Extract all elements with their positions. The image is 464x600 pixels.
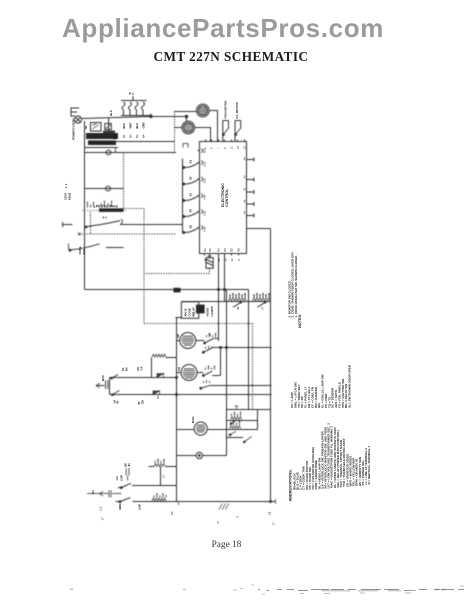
svg-text:S3: S3 — [189, 193, 193, 197]
capacitor C2 — [126, 468, 129, 481]
svg-text:L1: L1 — [99, 507, 103, 511]
svg-text:18: 18 — [208, 333, 212, 336]
wire B3 left lead — [177, 340, 180, 342]
svg-text:K06: K06 — [203, 226, 207, 231]
pulse ticks above R6 — [155, 460, 164, 463]
svg-text:10: 10 — [230, 258, 234, 261]
svg-text:B4: B4 — [223, 248, 227, 252]
wire node drop to B2 — [186, 117, 188, 122]
svg-text:K02: K02 — [203, 161, 207, 166]
switch S3 blade — [183, 196, 198, 201]
svg-text:20A: 20A — [82, 248, 86, 254]
svg-text:LATCH SW UPPER: LATCH SW UPPER — [94, 205, 118, 209]
svg-text:N2: N2 — [129, 134, 133, 138]
svg-text:K05: K05 — [203, 210, 207, 215]
svg-text:16: 16 — [203, 258, 207, 261]
svg-text:S5: S5 — [189, 225, 193, 229]
interlock switch blade A — [85, 219, 122, 228]
linkage dashed fuse to latch — [144, 268, 210, 273]
relay coil box on T1 — [91, 123, 112, 132]
wire transformer out to control — [114, 141, 175, 143]
wire connector bus — [121, 114, 151, 118]
vertical x257.8 sub loop — [257, 410, 259, 430]
linkage dashed vertical x144 — [143, 209, 145, 324]
linkage dashed horizontal y209 — [124, 208, 145, 210]
svg-text:CA: CA — [139, 367, 143, 371]
svg-text:LAMPS: LAMPS — [210, 306, 214, 316]
svg-text:17: 17 — [101, 517, 105, 521]
wire BLK drop — [108, 118, 110, 132]
connector J1 coil pins — [122, 102, 145, 113]
svg-text:NOTES:: NOTES: — [298, 314, 302, 328]
monitor switch blade 1 — [233, 302, 242, 307]
diode D1 — [157, 373, 164, 378]
power cord bracket — [71, 108, 79, 116]
switch S13 blade — [200, 385, 272, 389]
control box top pin ticks — [206, 140, 245, 142]
wire main bus y290 — [85, 289, 249, 291]
svg-text:Page 18: Page 18 — [212, 540, 242, 550]
svg-text:CMT 227N SCHEMATIC: CMT 227N SCHEMATIC — [154, 49, 309, 64]
svg-text:L 1: L 1 — [64, 183, 68, 188]
svg-text:SEC: SEC — [113, 134, 117, 140]
electronic control box U1 — [200, 142, 247, 254]
vertical feed x248.4 — [248, 290, 250, 410]
svg-text:SW: SW — [115, 476, 119, 481]
svg-text:L2: L2 — [268, 511, 272, 515]
svg-text:P 1: P 1 — [129, 92, 134, 96]
wire interlock feed — [63, 222, 73, 227]
wire interlock B — [106, 247, 124, 249]
bridge loop top wire — [110, 377, 177, 379]
switch S17 blade — [118, 483, 131, 488]
wire control to right rail — [247, 228, 271, 230]
svg-text:S-2: S-2 — [103, 216, 108, 220]
svg-text:12: 12 — [223, 258, 227, 261]
transformer T1 secondary block — [88, 140, 116, 145]
pulse ticks above R1 — [230, 294, 245, 298]
resistor group R2 on y301 — [253, 298, 271, 301]
wire left rail mid — [84, 225, 86, 248]
svg-text:B2: B2 — [208, 248, 212, 252]
svg-text:B5: B5 — [230, 248, 234, 252]
linkage dashed horizontal y324 — [144, 323, 253, 325]
chassis hatch marks — [219, 504, 229, 510]
varistor on bridge bottom — [112, 390, 120, 395]
magnetron V1 — [194, 422, 207, 435]
wire fan motor right lead — [209, 111, 217, 142]
vertical feed x226.8 — [226, 290, 228, 456]
svg-text:MAG: MAG — [191, 416, 195, 423]
linkage end mark — [78, 233, 81, 236]
svg-text:BLU: BLU — [135, 123, 139, 129]
svg-text:A3: A3 — [243, 199, 247, 203]
node J dot — [185, 115, 187, 117]
svg-text:D2: D2 — [156, 395, 160, 399]
svg-text:POWER CORD: POWER CORD — [72, 118, 76, 140]
svg-text:CAP: CAP — [138, 504, 142, 510]
switch S12 blade — [203, 371, 221, 376]
latch linkage dotted — [82, 210, 126, 212]
wire transformer bottom — [85, 147, 119, 149]
wire main feed y153 — [85, 152, 176, 154]
linkage dashed horizontal y233 — [79, 233, 176, 235]
switch on bridge top — [111, 374, 118, 379]
wire left rail upper — [84, 121, 86, 225]
wire bus N y501.4 — [133, 501, 276, 503]
svg-text:TR: TR — [84, 126, 88, 130]
wire magnetron bus y429.8 — [177, 429, 258, 431]
wire R6 bus — [149, 466, 177, 468]
fan motor B1 — [196, 104, 209, 117]
vertical feed x224.4 — [224, 256, 226, 302]
wire right rail x270.5 — [270, 229, 272, 502]
pulse ticks above S10 — [207, 334, 216, 337]
diode D2 — [153, 390, 160, 395]
wire fan motor left lead — [175, 111, 197, 113]
linkage dashed vertical x252 — [252, 324, 254, 410]
wire feed x220.9 — [220, 348, 222, 376]
wire R3 lead — [166, 357, 177, 359]
wire lamp feed y189 — [85, 188, 124, 190]
control box bottom pin ticks — [205, 254, 239, 256]
bridge loop bottom wire — [110, 394, 272, 396]
wire B4 right lead — [197, 372, 203, 374]
thermal cutout blob on y290 — [174, 288, 181, 293]
interlock switch blade B — [69, 244, 100, 252]
control box right pin stubs — [247, 158, 254, 218]
tick under bus at rail — [178, 502, 180, 506]
pulse ticks above R5 — [231, 422, 240, 425]
pulse ticks above R2 — [254, 294, 269, 298]
svg-text:GRN: GRN — [142, 122, 146, 128]
latch switch ticks — [96, 205, 112, 207]
svg-text:RELAY: RELAY — [192, 307, 196, 316]
node bridge right — [176, 377, 178, 396]
control box left pin hooks — [201, 149, 202, 230]
svg-text:S1: S1 — [189, 160, 193, 164]
switch S18 blade — [116, 498, 131, 503]
svg-text:A2: A2 — [243, 187, 247, 191]
wire B3 right lead — [196, 340, 205, 342]
node S11 junctions — [220, 347, 228, 349]
svg-text:.91: .91 — [127, 463, 131, 467]
svg-text:S2: S2 — [189, 176, 193, 180]
pulse ticks above R4 — [232, 413, 241, 416]
resistor group R5 — [230, 426, 241, 429]
switch S5 blade — [183, 228, 198, 233]
svg-text:ALL SW SHOWN DOOR OPEN: ALL SW SHOWN DOOR OPEN — [348, 365, 352, 408]
capacitor C1 feed point — [96, 380, 108, 389]
pulse ticks above R8 — [154, 494, 166, 497]
svg-text:GRN: GRN — [118, 504, 122, 510]
svg-text:S7: S7 — [261, 306, 265, 310]
latch dashed drop — [90, 212, 92, 234]
node right rail bottom — [270, 501, 272, 503]
svg-text:14: 14 — [217, 258, 221, 261]
resistor group R6 — [154, 464, 165, 467]
svg-text:A1: A1 — [243, 175, 247, 179]
svg-text:RI: RI — [116, 400, 120, 403]
wire motor B2 left lead — [175, 127, 182, 129]
switch S11 blade — [203, 348, 272, 354]
stirrer fan motor B2 — [182, 121, 195, 134]
svg-text:HVC: HVC — [101, 375, 105, 381]
oven lamp DS1 — [196, 452, 202, 458]
wire top feed to control — [151, 116, 187, 118]
label R7 ticks — [163, 476, 165, 478]
resistor group R3 — [152, 354, 166, 357]
svg-text:S6: S6 — [236, 306, 240, 310]
svg-text:A0: A0 — [243, 157, 247, 161]
svg-text:R2: R2 — [170, 511, 174, 515]
wire motor B2 right lead — [195, 128, 211, 142]
svg-text:N3: N3 — [135, 134, 139, 138]
capacitor C3 — [87, 490, 122, 497]
wire sub bus y409.5 — [227, 409, 271, 411]
triac block TB — [196, 305, 205, 314]
control box left pin stubs — [198, 151, 200, 228]
wire bus y485.4 — [132, 485, 177, 487]
turntable motor B4 — [181, 365, 197, 381]
switch S10 blade — [204, 338, 218, 344]
svg-text:BLK: BLK — [122, 123, 126, 129]
stirrer motor B3 — [180, 333, 196, 349]
pin1 bracket top left — [183, 144, 188, 148]
node junction circle A — [106, 150, 111, 155]
svg-text:AppliancePartsPros.com: AppliancePartsPros.com — [62, 13, 384, 43]
latch interlock blob — [99, 208, 124, 212]
svg-text:3. MONITOR SW CLOSED.: 3. MONITOR SW CLOSED. — [287, 280, 291, 317]
wire K1 left lead — [175, 317, 181, 319]
switch S15 blade — [229, 431, 236, 435]
svg-text:N4: N4 — [142, 134, 146, 138]
svg-text:HV: HV — [91, 490, 95, 494]
svg-text:B3: B3 — [217, 248, 221, 252]
svg-text:A4: A4 — [243, 211, 247, 215]
monitor switch blade 2 — [257, 302, 266, 307]
bridge loop left side — [109, 378, 111, 395]
switch bank rail — [182, 159, 184, 233]
node top feed dot — [150, 115, 152, 117]
wire R6 tap down — [160, 467, 162, 486]
node dots on y290 — [218, 289, 226, 291]
terminal tick 17 right — [275, 499, 277, 504]
connector J1 bar — [121, 96, 147, 101]
svg-text:N = NEUTRAL TERMINAL 1: N = NEUTRAL TERMINAL 1 — [367, 446, 371, 485]
wire B4 left lead — [177, 372, 182, 374]
svg-text:K03: K03 — [203, 178, 207, 183]
switch S14 blade — [230, 420, 237, 424]
svg-text:S4: S4 — [189, 209, 193, 213]
wire dotted vertical linkage x174.5 — [174, 112, 176, 154]
scanner noise line bottom — [258, 590, 464, 591]
wire monitor bus y301 — [182, 301, 271, 303]
door switch stub 1 — [223, 121, 229, 142]
node junction circle B — [106, 186, 111, 191]
switch S1 blade — [183, 163, 198, 168]
switch S2 blade — [183, 180, 198, 185]
vertical feed x218 — [218, 256, 220, 342]
power cord plug P1 — [74, 116, 81, 123]
switch S16 blade — [227, 436, 252, 442]
transformer T1 primary block — [86, 131, 118, 140]
resistor group R4 — [231, 417, 242, 420]
latch pulse ticks — [85, 202, 112, 207]
resistor group R1 on y301 — [229, 298, 247, 301]
svg-text:B1: B1 — [203, 248, 207, 252]
wire interlock A to rail — [120, 224, 183, 226]
wire left device rail x176.5 — [176, 318, 178, 502]
svg-text:N1: N1 — [122, 134, 126, 138]
transformer tap tick — [114, 148, 116, 154]
svg-text:N: N — [216, 521, 220, 523]
svg-text:60HZ: 60HZ — [68, 192, 72, 200]
svg-text:OD: OD — [140, 400, 144, 404]
pulse ticks above S12 — [206, 367, 215, 370]
switch S4 blade — [183, 212, 198, 217]
svg-text:B6: B6 — [237, 248, 241, 252]
svg-text:FAN MOTOR: FAN MOTOR — [223, 100, 227, 119]
pulse ticks above S11 — [206, 346, 212, 349]
svg-text:K04: K04 — [203, 194, 207, 199]
pulse ticks above S13 — [204, 380, 210, 383]
svg-text:WHT: WHT — [129, 122, 133, 128]
svg-text:ST. MOTOR: ST. MOTOR — [235, 101, 239, 118]
connector pin stubs — [124, 113, 144, 116]
fuse F1 body — [206, 254, 213, 269]
resistor group R8 — [152, 498, 166, 501]
wire lamp leads — [177, 455, 227, 457]
wire left rail lower — [84, 248, 86, 290]
svg-text:CAP: CAP — [120, 475, 124, 481]
tick label mark y409.5 — [235, 406, 238, 410]
wire L1 top feed — [81, 117, 151, 119]
svg-text:CONTROL: CONTROL — [225, 188, 229, 207]
svg-text:BLK: BLK — [109, 109, 113, 116]
resistor feed vertical — [151, 358, 153, 378]
wire sub bus y420 — [227, 420, 258, 422]
svg-text:17: 17 — [272, 522, 276, 526]
linkage dashed vertical x123.6 — [123, 154, 125, 209]
door switch stub 2 — [235, 121, 241, 142]
relay box K1 — [181, 302, 198, 319]
